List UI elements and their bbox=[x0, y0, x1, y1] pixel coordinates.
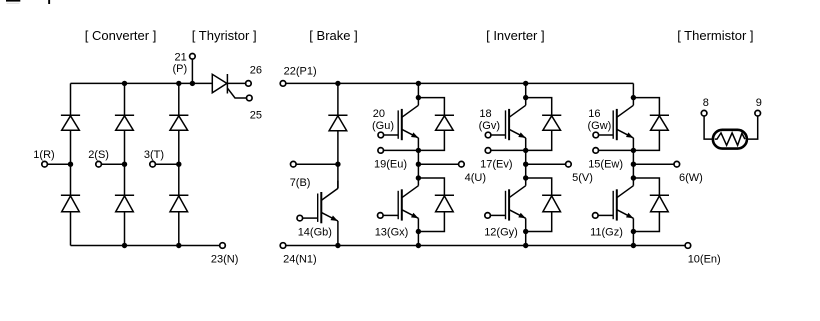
terminal 17(Ev) bbox=[480, 148, 526, 171]
node output V bbox=[523, 162, 528, 167]
node converter leg3 mid bbox=[176, 162, 181, 167]
node leg W bottom bbox=[631, 243, 636, 248]
terminal 7(B) bbox=[290, 161, 338, 189]
svg-text:[ Thermistor ]: [ Thermistor ] bbox=[677, 28, 753, 43]
wire P1 top rail bbox=[286, 82, 634, 84]
svg-text:26: 26 bbox=[250, 65, 262, 77]
svg-text:[ Inverter ]: [ Inverter ] bbox=[486, 28, 545, 43]
wire leg V collector drop bbox=[525, 83, 527, 97]
label 18 (Gv) bbox=[479, 108, 500, 132]
thermistor TH bbox=[713, 130, 747, 149]
terminal 2(S) bbox=[88, 149, 124, 167]
terminal 4(U) bbox=[459, 161, 486, 184]
svg-text:3(T): 3(T) bbox=[144, 149, 164, 161]
terminal 25 bbox=[247, 95, 263, 121]
svg-text:9: 9 bbox=[756, 97, 762, 109]
svg-text:18: 18 bbox=[479, 108, 491, 120]
wire emitter to output V bbox=[525, 150, 527, 164]
gate terminal 11(Gz) bbox=[593, 213, 614, 219]
wire brake leg upper bbox=[337, 83, 339, 164]
wire upper diode branch V bbox=[526, 98, 552, 116]
wire lower diode branch V bbox=[526, 178, 552, 195]
gate terminal 14(Gb) bbox=[297, 215, 318, 221]
node inverter leg V top bbox=[523, 81, 528, 86]
diode D2 (upper arm 2) bbox=[115, 115, 134, 130]
svg-text:(Gu): (Gu) bbox=[372, 120, 394, 132]
terminal 9 bbox=[755, 97, 762, 116]
svg-text:5(V): 5(V) bbox=[572, 172, 593, 184]
svg-text:11(Gz): 11(Gz) bbox=[590, 226, 623, 238]
node upper collector W bbox=[631, 95, 636, 100]
wire lower diode anode V bbox=[526, 212, 552, 232]
svg-text:17(Ev): 17(Ev) bbox=[480, 159, 512, 171]
node inverter leg U top bbox=[416, 81, 421, 86]
wire output to lower collector U bbox=[417, 164, 419, 178]
node output W bbox=[631, 162, 636, 167]
wire lower diode branch U bbox=[418, 178, 444, 195]
wire upper diode anode W bbox=[633, 130, 659, 150]
diode D6 (lower arm 3) bbox=[169, 195, 188, 211]
diode FWD upper W bbox=[650, 115, 669, 130]
wire upper emitter W bbox=[632, 138, 634, 151]
label 16 (Gw) bbox=[588, 108, 612, 132]
svg-text:7(B): 7(B) bbox=[290, 177, 311, 189]
wire upper emitter U bbox=[417, 138, 419, 151]
diode D3 (upper arm 3) bbox=[169, 115, 188, 130]
wire output V bbox=[526, 163, 566, 165]
svg-text:[ Brake ]: [ Brake ] bbox=[309, 28, 357, 43]
wire upper diode branch W bbox=[633, 98, 659, 116]
wire converter leg 1 bbox=[70, 83, 72, 245]
svg-text:25: 25 bbox=[250, 110, 262, 122]
svg-text:2(S): 2(S) bbox=[88, 149, 109, 161]
node brake bottom bbox=[335, 243, 340, 248]
svg-text:14(Gb): 14(Gb) bbox=[298, 227, 332, 239]
wire thyristor gate bbox=[228, 88, 246, 98]
node upper collector U bbox=[416, 95, 421, 100]
node lower collector U bbox=[416, 175, 421, 180]
terminal 3(T) bbox=[144, 149, 179, 167]
terminal 19(Eu) bbox=[374, 148, 418, 171]
node leg V bottom bbox=[523, 243, 528, 248]
wire upper diode branch U bbox=[418, 98, 444, 116]
node upper collector V bbox=[523, 95, 528, 100]
terminal 22(P1) bbox=[280, 66, 316, 87]
wire emitter to output U bbox=[417, 150, 419, 164]
transistor Q4 (lower V) bbox=[506, 178, 526, 221]
wire lower diode anode W bbox=[633, 212, 659, 232]
wire output to lower collector V bbox=[525, 164, 527, 178]
diode FWD upper U bbox=[435, 115, 454, 130]
svg-text:20: 20 bbox=[373, 108, 385, 120]
wire output W bbox=[633, 163, 674, 165]
diode D7 (brake) bbox=[328, 115, 347, 131]
wire lower diode anode U bbox=[418, 212, 444, 232]
node emitter rail U bbox=[416, 148, 421, 153]
wire converter leg 3 bbox=[178, 83, 180, 245]
gate terminal 13(Gx) bbox=[378, 213, 399, 219]
transistor Q6 (lower W) bbox=[613, 178, 633, 221]
wire brake emitter bbox=[337, 221, 339, 246]
svg-text:8: 8 bbox=[703, 97, 709, 109]
transistor Q1 (upper U) bbox=[398, 98, 418, 141]
terminal 10(En) bbox=[685, 243, 721, 266]
node leg U bottom bbox=[416, 243, 421, 248]
diode D5 (lower arm 2) bbox=[115, 195, 134, 211]
svg-text:(Gw): (Gw) bbox=[588, 120, 612, 132]
wire 21(P) drop bbox=[191, 59, 193, 84]
node converter leg3 bottom bbox=[176, 243, 181, 248]
transistor Q5 (upper W) bbox=[613, 98, 633, 141]
diode FWD lower U bbox=[435, 195, 454, 211]
node converter leg2 mid bbox=[122, 162, 127, 167]
node converter leg3 top bbox=[176, 81, 181, 86]
svg-text:(P): (P) bbox=[173, 63, 188, 75]
wire lower emitter U bbox=[417, 218, 419, 245]
wire converter leg 2 bbox=[124, 83, 126, 245]
diode D4 (lower arm 1) bbox=[61, 195, 80, 211]
terminal 6(W) bbox=[674, 161, 703, 184]
wire output to lower collector W bbox=[632, 164, 634, 178]
node lower collector W bbox=[631, 175, 636, 180]
node diode rail V bbox=[523, 229, 528, 234]
node output U bbox=[416, 162, 421, 167]
gate terminal 18(Gv) bbox=[485, 132, 505, 138]
wire thermistor lead 8 bbox=[704, 116, 712, 139]
wire thermistor lead 9 bbox=[748, 116, 758, 139]
terminal 1(R) bbox=[33, 149, 70, 167]
terminal 21(P) bbox=[173, 52, 196, 75]
terminal 24(N1) bbox=[280, 243, 317, 266]
wire converter bottom rail bbox=[71, 245, 220, 247]
terminal 5(V) bbox=[566, 161, 593, 184]
svg-text:23(N): 23(N) bbox=[211, 253, 239, 265]
svg-text:22(P1): 22(P1) bbox=[284, 66, 317, 78]
wire leg W collector drop bbox=[632, 83, 634, 97]
wire emitter to output W bbox=[632, 150, 634, 164]
cropped heading fragment stem bbox=[48, 0, 50, 4]
wire output U bbox=[418, 163, 458, 165]
diode FWD lower V bbox=[542, 195, 561, 211]
svg-text:21: 21 bbox=[175, 52, 187, 64]
gate terminal 20(Gu) bbox=[378, 132, 398, 138]
svg-text:[ Thyristor ]: [ Thyristor ] bbox=[192, 28, 257, 43]
diode FWD upper V bbox=[542, 115, 561, 130]
diode D1 (upper arm 1) bbox=[61, 115, 80, 130]
terminal 8 bbox=[701, 97, 709, 116]
svg-text:(Gv): (Gv) bbox=[479, 120, 500, 132]
node 7(B) junction bbox=[335, 162, 340, 167]
svg-text:13(Gx): 13(Gx) bbox=[375, 226, 409, 238]
wire brake collector bbox=[337, 164, 339, 188]
wire thyristor cathode to 26 bbox=[227, 82, 245, 84]
terminal 15(Ew) bbox=[588, 148, 633, 171]
node diode rail U bbox=[416, 229, 421, 234]
wire lower diode branch W bbox=[633, 178, 659, 195]
wire upper emitter V bbox=[525, 138, 527, 151]
gate terminal 12(Gy) bbox=[485, 213, 506, 219]
node converter leg2 bottom bbox=[122, 243, 127, 248]
wire upper diode anode U bbox=[418, 130, 444, 150]
wire lower emitter W bbox=[632, 218, 634, 245]
cropped heading fragment left bbox=[6, 0, 20, 2]
terminal 23(N) bbox=[211, 243, 239, 266]
node converter leg2 top bbox=[122, 81, 127, 86]
svg-text:16: 16 bbox=[588, 108, 600, 120]
node P junction bbox=[190, 81, 195, 86]
node lower collector V bbox=[523, 175, 528, 180]
node emitter rail W bbox=[631, 148, 636, 153]
gate terminal 16(Gw) bbox=[593, 132, 613, 138]
svg-text:19(Eu): 19(Eu) bbox=[374, 159, 407, 171]
svg-text:4(U): 4(U) bbox=[465, 172, 486, 184]
label 20 (Gu) bbox=[372, 108, 394, 132]
wire converter top rail bbox=[71, 82, 213, 84]
wire leg U collector drop bbox=[417, 83, 419, 97]
thyristor TH1 bbox=[212, 74, 227, 94]
svg-text:12(Gy): 12(Gy) bbox=[484, 226, 518, 238]
terminal 26 bbox=[246, 65, 262, 87]
svg-text:1(R): 1(R) bbox=[33, 149, 54, 161]
transistor Q3 (upper V) bbox=[506, 98, 526, 141]
svg-text:24(N1): 24(N1) bbox=[283, 253, 317, 265]
transistor Q2 (lower U) bbox=[398, 178, 418, 221]
wire upper diode anode V bbox=[526, 130, 552, 150]
node emitter rail V bbox=[523, 148, 528, 153]
svg-text:[ Converter ]: [ Converter ] bbox=[85, 28, 157, 43]
wire lower emitter V bbox=[525, 218, 527, 245]
svg-text:15(Ew): 15(Ew) bbox=[588, 159, 623, 171]
node converter leg1 mid bbox=[68, 162, 73, 167]
wire N1 bottom rail bbox=[286, 245, 685, 247]
svg-text:10(En): 10(En) bbox=[688, 253, 721, 265]
node brake top bbox=[335, 81, 340, 86]
transistor Q7 (brake IGBT) bbox=[318, 181, 338, 224]
node diode rail W bbox=[631, 229, 636, 234]
diode FWD lower W bbox=[650, 195, 669, 211]
svg-text:6(W): 6(W) bbox=[679, 172, 703, 184]
